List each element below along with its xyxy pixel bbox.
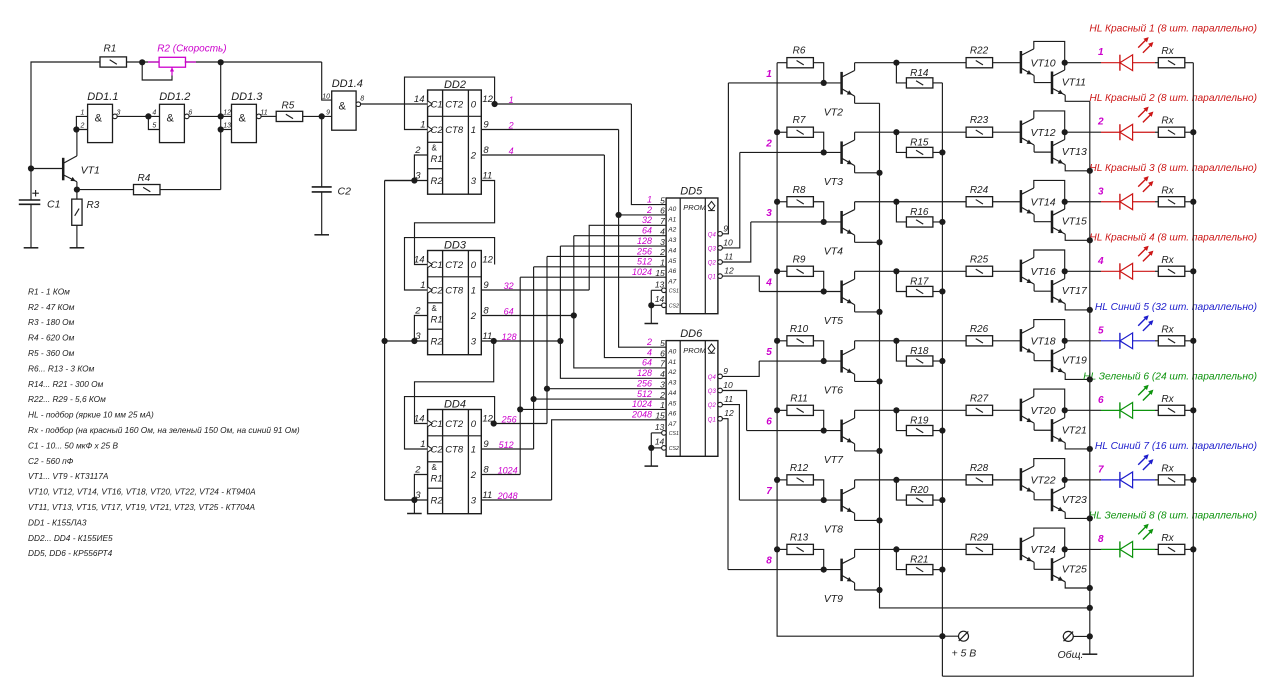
svg-text:14: 14 (414, 254, 425, 265)
transistor VT20 (1020, 399, 1023, 422)
wire R24 to VT14 base (993, 201, 1022, 203)
svg-text:0: 0 (471, 260, 477, 271)
wire R14 drop (896, 63, 906, 83)
resistor Rx row 7 (1158, 475, 1185, 485)
wire VT3 emitter to rail B (855, 172, 880, 174)
svg-text:CS2: CS2 (669, 304, 679, 310)
svg-text:6: 6 (1098, 395, 1104, 406)
node ground rail row 6 (1087, 446, 1093, 452)
wire R25 to VT16 base (993, 270, 1022, 272)
wire VT9 emitter to rail B (855, 589, 880, 591)
svg-text:Общ.: Общ. (1058, 649, 1084, 661)
wire row 8 LED line black (1065, 548, 1101, 550)
wire VT23 emitter to ground rail (1065, 512, 1090, 518)
wire VT21 emitter to ground rail (1065, 443, 1090, 449)
svg-text:VT1: VT1 (81, 165, 100, 177)
svg-text:8: 8 (1098, 534, 1104, 545)
transistor VT15 (1051, 211, 1054, 234)
wire VT24 emitter to VT25 base (1034, 568, 1052, 570)
node right bus row 4 (1190, 268, 1196, 274)
wire row 7 base line (739, 499, 841, 501)
transistor VT14 (1020, 190, 1023, 213)
resistor R14 (906, 78, 933, 88)
wire row 1 LED line black (1065, 62, 1101, 64)
resistor R16 (906, 217, 933, 227)
wire C1 to ground (30, 204, 32, 248)
svg-text:2: 2 (646, 205, 652, 215)
svg-text:DD1.3: DD1.3 (231, 91, 263, 103)
resistor R23 (966, 127, 993, 137)
node row 6 collector junction (893, 407, 899, 413)
node rail A row 6 (774, 407, 780, 413)
wire VT14 emitter to VT15 base (1034, 221, 1052, 223)
svg-text:A3: A3 (667, 237, 676, 244)
svg-text:1: 1 (81, 109, 85, 116)
node top-rail / DD1.3-input bus junction (218, 59, 224, 65)
svg-text:CT2: CT2 (445, 99, 464, 110)
wire DD3 feedback out0 to C2 (405, 238, 495, 290)
wire VT20 emitter to VT21 base (1034, 429, 1052, 431)
svg-text:Q2: Q2 (708, 261, 717, 267)
svg-text:VT14: VT14 (1031, 196, 1056, 208)
svg-text:R24: R24 (970, 185, 989, 196)
svg-text:R25: R25 (970, 254, 989, 265)
svg-text:VT10: VT10 (1031, 57, 1056, 69)
wire row 4 base line (759, 290, 841, 292)
svg-text:3: 3 (766, 208, 772, 219)
svg-text:5: 5 (660, 195, 665, 205)
resistor Rx row 6 (1158, 405, 1185, 415)
wire Rx to right bus row 2 (1185, 131, 1194, 133)
svg-text:HL Синий 7 (16 шт. параллельно: HL Синий 7 (16 шт. параллельно) (1095, 441, 1257, 452)
node rail C / +5V junction (939, 633, 945, 639)
svg-text:1: 1 (420, 119, 425, 130)
svg-text:R22... R29 - 5,6 КОм: R22... R29 - 5,6 КОм (28, 394, 106, 404)
svg-text:R14: R14 (910, 68, 929, 79)
svg-text:Rx: Rx (1161, 324, 1174, 335)
svg-text:R4 - 620 Ом: R4 - 620 Ом (28, 333, 75, 343)
node rail A row 8 (774, 546, 780, 552)
wire R10 right to base (813, 341, 823, 361)
svg-text:R8: R8 (793, 185, 806, 196)
svg-text:VT5: VT5 (824, 315, 843, 327)
wire PROM output to row 6 (722, 391, 746, 431)
svg-text:Rx - подбор (на красный 160 Ом: Rx - подбор (на красный 160 Ом, на зелен… (28, 425, 300, 435)
resistor Rx row 8 (1158, 544, 1185, 554)
svg-text:CT2: CT2 (445, 419, 464, 430)
svg-text:HL Зеленый 6 (24 шт. параллель: HL Зеленый 6 (24 шт. параллельно) (1083, 371, 1257, 382)
resistor R10 (787, 336, 814, 346)
node DD4 out0 junction (491, 420, 497, 426)
wire R20 to +5V rail (933, 499, 943, 501)
resistor R5 (276, 111, 303, 121)
svg-text:VT21: VT21 (1062, 424, 1087, 436)
wire rail A to R10 (777, 340, 787, 342)
node DD3 out3 junction (491, 338, 497, 344)
svg-text:A0: A0 (667, 206, 676, 213)
svg-text:9: 9 (723, 366, 728, 376)
svg-text:3: 3 (117, 109, 121, 116)
svg-text:VT1... VT9 - КТ3117А: VT1... VT9 - КТ3117А (28, 471, 109, 481)
wire C2 to ground (321, 192, 323, 235)
wire net bit64 (DD3.8 to DD5.A3, DD6.A2) (481, 315, 574, 317)
ground below C2 (314, 234, 329, 236)
svg-text:A5: A5 (667, 258, 676, 265)
wire row 8 collector line (855, 548, 967, 550)
svg-text:CS1: CS1 (669, 431, 679, 437)
svg-text:C2 - 560 пФ: C2 - 560 пФ (28, 456, 74, 466)
svg-text:256: 256 (636, 246, 652, 256)
svg-text:Q1: Q1 (708, 275, 716, 281)
resistor R26 (966, 336, 993, 346)
wire net bit2048 (DD4.11 to DD6.A7) (481, 499, 551, 501)
wire row 2 base line (740, 151, 842, 153)
wire VT2 emitter to rail B (855, 102, 880, 104)
svg-text:2: 2 (414, 305, 421, 316)
transistor VT5 (840, 280, 843, 303)
wire row 5 collector line (855, 340, 967, 342)
node DD2 R2 junction (411, 177, 417, 183)
wire R7 right to base (813, 132, 823, 152)
wire DD4 R2 to ground (413, 500, 415, 514)
svg-text:5: 5 (1098, 325, 1104, 336)
svg-text:A1: A1 (667, 216, 676, 223)
svg-text:12: 12 (724, 266, 734, 276)
wire R12 right to base (813, 480, 823, 500)
node row 2 collector junction (893, 129, 899, 135)
svg-text:DD3: DD3 (444, 239, 467, 251)
svg-text:7: 7 (660, 216, 665, 226)
wire R3 to ground (76, 225, 78, 248)
PROM DD6 (666, 341, 718, 457)
svg-text:R27: R27 (970, 393, 989, 404)
wire LED to Rx row 4 (1155, 270, 1158, 272)
wire DD2 R1-R2 tie (414, 155, 427, 181)
ground below Общ (1082, 653, 1097, 655)
resistor R17 (906, 286, 933, 296)
LED HL row 5 (1101, 340, 1120, 342)
svg-text:DD2... DD4 - К155ИЕ5: DD2... DD4 - К155ИЕ5 (28, 533, 113, 543)
svg-text:8: 8 (360, 96, 364, 103)
svg-text:9: 9 (483, 280, 489, 291)
svg-text:3: 3 (1098, 186, 1104, 197)
transistor VT9 (840, 559, 843, 582)
node row 2 LED junction (1062, 129, 1068, 135)
svg-text:1024: 1024 (632, 399, 652, 409)
transistor VT3 (840, 141, 843, 164)
svg-text:&: & (95, 113, 103, 125)
wire net bit128 (DD3.11 to DD5.A4, DD6.A3) (481, 340, 560, 342)
svg-text:6: 6 (660, 206, 665, 216)
svg-text:CT8: CT8 (445, 285, 464, 296)
resistor R12 (787, 475, 814, 485)
svg-text:DD1.4: DD1.4 (332, 78, 363, 90)
svg-text:R22: R22 (970, 46, 989, 57)
svg-text:5: 5 (152, 123, 156, 130)
wire input bus vertical (x=220.7) (220, 62, 222, 189)
node ground rail row 7 (1087, 515, 1093, 521)
svg-text:VT17: VT17 (1062, 285, 1088, 297)
svg-text:A3: A3 (667, 380, 676, 387)
svg-text:HL Синий 5 (32 шт. параллельно: HL Синий 5 (32 шт. параллельно) (1095, 302, 1257, 313)
wire row 2 collector line (855, 131, 967, 133)
wire DD2 feedback out0 to C2 (405, 77, 495, 129)
ground below DD4 (407, 513, 422, 515)
svg-text:HL Красный 3 (8 шт. параллельн: HL Красный 3 (8 шт. параллельно) (1089, 163, 1257, 174)
wire LED to Rx row 7 (1155, 479, 1158, 481)
svg-text:32: 32 (642, 215, 652, 225)
node ground rail row 4 (1087, 307, 1093, 313)
wire row 2 LED line black (1065, 131, 1101, 133)
svg-text:A0: A0 (667, 349, 676, 356)
wire PROM output to row 5 (722, 361, 759, 376)
counter DD2 (428, 90, 482, 194)
svg-text:R29: R29 (970, 532, 989, 543)
node rail B row 3 (876, 239, 882, 245)
wire VT11 emitter to ground rail (1065, 95, 1090, 101)
svg-text:2: 2 (80, 123, 85, 130)
resistor R27 (966, 405, 993, 415)
svg-text:R6... R13 - 3 КОм: R6... R13 - 3 КОм (28, 363, 95, 373)
svg-text:2: 2 (1097, 117, 1104, 128)
wire DD1.4 out to DD2 C1 (361, 103, 428, 105)
node right bus row 2 (1190, 129, 1196, 135)
svg-text:Q3: Q3 (708, 247, 717, 253)
wire DD1.2 out to DD1.3 pin12 (189, 115, 231, 117)
node bit256/A4 junction (544, 386, 550, 392)
svg-text:Q2: Q2 (708, 403, 717, 409)
wire row 3 base line (751, 221, 842, 223)
svg-text:128: 128 (637, 236, 652, 246)
node row 3 base junction (821, 219, 827, 225)
svg-text:3: 3 (471, 495, 477, 506)
wire row 4 collector line (855, 270, 967, 272)
wire R6 right to base (813, 63, 823, 83)
resistor R19 (906, 425, 933, 435)
svg-text:128: 128 (637, 368, 652, 378)
node rail C row 3 (939, 219, 945, 225)
svg-text:C1: C1 (431, 419, 443, 430)
svg-text:CT8: CT8 (445, 125, 464, 136)
svg-text:R16: R16 (910, 207, 929, 218)
svg-text:VT11, VT13, VT15, VT17, VT19,: VT11, VT13, VT15, VT17, VT19, VT21, VT23… (28, 502, 255, 512)
wire R2 wiper return (142, 62, 172, 80)
svg-text:R4: R4 (138, 173, 151, 184)
node rail B row 8 (876, 587, 882, 593)
svg-text:VT15: VT15 (1062, 216, 1087, 228)
svg-text:9: 9 (483, 439, 489, 450)
wire R29 to VT24 base (993, 548, 1022, 550)
svg-text:&: & (339, 101, 347, 113)
svg-text:1: 1 (660, 400, 665, 410)
svg-text:4: 4 (660, 226, 665, 236)
wire net bit2 (DD2.9 to DD5.A1, DD6.A0) (481, 129, 618, 131)
svg-text:2: 2 (765, 138, 772, 149)
wire Rx to right bus row 6 (1185, 409, 1194, 411)
wire VT15 emitter to ground rail (1065, 234, 1090, 240)
svg-text:1: 1 (471, 125, 476, 136)
resistor R9 (787, 266, 814, 276)
svg-text:VT4: VT4 (824, 245, 843, 257)
svg-text:HL - подбор (яркие 10 мм 25 мА: HL - подбор (яркие 10 мм 25 мА) (28, 410, 154, 420)
svg-text:C2: C2 (338, 186, 352, 198)
resistor R29 (966, 544, 993, 554)
svg-text:DD5: DD5 (680, 185, 703, 197)
node rail B to ground rail junction (1087, 605, 1093, 611)
svg-text:5: 5 (766, 347, 772, 358)
node rail A row 4 (774, 268, 780, 274)
wire top rail (R1-R2 net) (31, 62, 100, 200)
node right bus row 7 (1190, 477, 1196, 483)
node row 1 base junction (821, 80, 827, 86)
wire row 6 collector line (855, 409, 967, 411)
svg-text:DD1.2: DD1.2 (159, 91, 190, 103)
svg-text:R28: R28 (970, 463, 989, 474)
svg-text:8: 8 (483, 305, 489, 316)
node right bus row 6 (1190, 407, 1196, 413)
svg-text:R19: R19 (910, 416, 929, 427)
svg-text:R2 - 47 КОм: R2 - 47 КОм (28, 302, 75, 312)
svg-text:VT9: VT9 (824, 593, 843, 605)
wire VT1 emitter to R4 (77, 189, 134, 191)
svg-text:10: 10 (723, 380, 733, 390)
resistor R1 (100, 57, 127, 67)
svg-text:2: 2 (470, 150, 477, 161)
node bit64 junction (571, 312, 577, 318)
wire LED to Rx row 3 (1155, 201, 1158, 203)
node row 6 LED junction (1062, 407, 1068, 413)
svg-text:R14... R21 - 300 Ом: R14... R21 - 300 Ом (28, 379, 104, 389)
svg-text:&: & (167, 113, 175, 125)
svg-text:R2: R2 (431, 176, 444, 187)
svg-text:VT6: VT6 (824, 385, 843, 397)
node rail A row 3 (774, 199, 780, 205)
transistor VT19 (1051, 350, 1054, 373)
wire rail A to R7 (777, 131, 787, 133)
svg-text:Rx: Rx (1161, 185, 1174, 196)
svg-text:2: 2 (646, 337, 652, 347)
LED HL row 6 (1101, 409, 1120, 411)
node bit512/A5 junction (531, 396, 537, 402)
wire R18 to +5V rail (933, 360, 943, 362)
svg-text:Q1: Q1 (708, 417, 716, 423)
svg-text:2: 2 (414, 145, 421, 156)
wire PROM output to row 1 (722, 83, 728, 234)
node top-rail / R2 wiper junction (139, 59, 145, 65)
wire rail A to R9 (777, 270, 787, 272)
node row 7 base junction (821, 497, 827, 503)
counter DD3 (428, 251, 482, 355)
svg-text:Rx: Rx (1161, 394, 1174, 405)
wire LED to Rx row 5 (1155, 340, 1158, 342)
wire R17 to +5V rail (933, 290, 943, 292)
wire Rx to right bus row 5 (1185, 340, 1194, 342)
wire +5V rail C (941, 83, 943, 676)
capacitor C2 (312, 186, 332, 188)
wire LED to Rx row 1 (1155, 62, 1158, 64)
svg-text:4: 4 (765, 277, 772, 288)
node VT1 emitter junction (74, 187, 80, 193)
svg-text:14: 14 (414, 413, 425, 424)
svg-text:DD6: DD6 (680, 328, 703, 340)
node reset bus / DD3 junction (382, 338, 388, 344)
wire rail A to R11 (777, 409, 787, 411)
wire VT1 base (31, 168, 63, 170)
node row 5 base junction (821, 358, 827, 364)
wire R21 drop (896, 549, 906, 569)
node right bus row 3 (1190, 199, 1196, 205)
wire row 5 LED line black (1065, 340, 1101, 342)
svg-text:1: 1 (660, 258, 665, 268)
resistor R11 (787, 405, 814, 415)
transistor VT6 (840, 350, 843, 373)
wire DD5 CS1-CS2 tie to ground (651, 289, 662, 291)
svg-text:R13: R13 (790, 532, 809, 543)
svg-text:8: 8 (483, 145, 489, 156)
svg-text:14: 14 (655, 437, 665, 447)
resistor Rx row 4 (1158, 266, 1185, 276)
wire R19 drop (896, 410, 906, 430)
svg-text:15: 15 (655, 268, 665, 278)
svg-text:R3 - 180 Ом: R3 - 180 Ом (28, 317, 75, 327)
node rail C row 2 (939, 149, 945, 155)
counter DD4 (428, 410, 482, 514)
svg-text:256: 256 (636, 378, 652, 388)
wire DD1.2 inputs tie (148, 116, 159, 129)
wire Rx to right bus row 3 (1185, 201, 1194, 203)
svg-text:A2: A2 (667, 227, 676, 234)
svg-text:R26: R26 (970, 324, 989, 335)
wire R27 to VT20 base (993, 409, 1022, 411)
transistor VT16 (1020, 260, 1023, 283)
terminal +5V (959, 631, 969, 641)
resistor Rx row 5 (1158, 336, 1185, 346)
svg-text:Q4: Q4 (708, 375, 717, 381)
svg-text:R20: R20 (910, 485, 929, 496)
node rail C row 7 (939, 497, 945, 503)
wire reset bus to DD4 R2 (385, 499, 415, 501)
node right bus row 5 (1190, 338, 1196, 344)
wire top rail to DD1.4 pin10 (322, 62, 332, 100)
svg-text:HL Красный 4 (8 шт. параллельн: HL Красный 4 (8 шт. параллельно) (1089, 232, 1257, 243)
svg-text:VT13: VT13 (1062, 146, 1087, 158)
svg-text:Rx: Rx (1161, 116, 1174, 127)
svg-text:13: 13 (223, 123, 231, 130)
svg-text:VT20: VT20 (1031, 405, 1056, 417)
resistor R15 (906, 147, 933, 157)
svg-text:7: 7 (1098, 464, 1104, 475)
resistor R24 (966, 197, 993, 207)
svg-text:12: 12 (724, 408, 734, 418)
svg-text:R18: R18 (910, 346, 929, 357)
svg-text:1: 1 (420, 439, 425, 450)
svg-text:CS2: CS2 (669, 446, 679, 452)
wire DD1.3 out to R5 (261, 115, 276, 117)
transistor VT18 (1020, 329, 1023, 352)
wire rail A to R13 (777, 548, 787, 550)
wire DD3 out3 to DD4 C1 (415, 341, 494, 424)
svg-text:3: 3 (660, 237, 665, 247)
transistor VT22 (1020, 468, 1023, 491)
wire DD4 R1-R2 tie (414, 475, 427, 501)
svg-text:3: 3 (471, 336, 477, 347)
wire VT13 emitter to ground rail (1065, 165, 1090, 171)
wire VT17 emitter to ground rail (1065, 304, 1090, 310)
svg-text:A6: A6 (667, 268, 676, 275)
node rail B row 7 (876, 517, 882, 523)
node rail C row 5 (939, 358, 945, 364)
wire VT22 emitter to VT23 base (1034, 499, 1052, 501)
